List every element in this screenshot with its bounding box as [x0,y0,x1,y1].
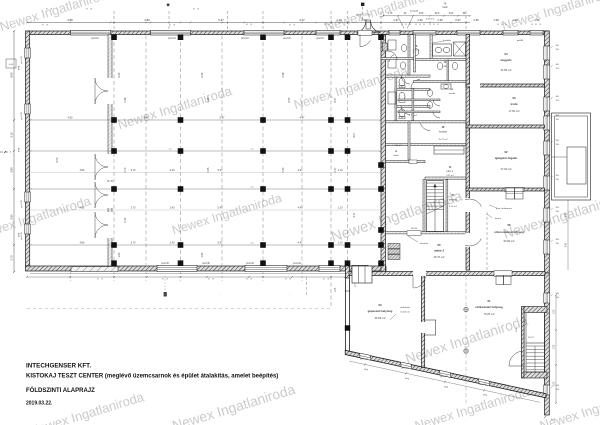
svg-text:kandallo: kandallo [443,40,452,42]
svg-text:05: 05 [437,243,441,247]
svg-text:1.35: 1.35 [473,18,479,22]
targyalo bottom wall [466,84,545,87]
lower-right section west wall [346,266,350,353]
svg-text:raktar 2: raktar 2 [434,249,445,253]
svg-text:1.10: 1.10 [338,207,343,210]
sanitary partition horizontal 4 [386,121,467,123]
svg-text:3.48: 3.48 [282,72,285,77]
svg-text:21.86 m2: 21.86 m2 [501,68,512,72]
svg-text:3.70: 3.70 [131,242,136,245]
sanitary partition horizontal 3 [395,106,430,108]
svg-text:pm1.00: pm1.00 [21,112,23,120]
svg-text:5.47: 5.47 [218,18,224,22]
columns under top wall [111,34,117,40]
igazgatoi door radiator symbol [506,188,515,199]
svg-text:igazgatoi-fogado: igazgatoi-fogado [495,156,518,160]
hall columns grid [111,117,117,123]
terrace outside right wall [552,113,591,200]
svg-text:4.47: 4.47 [298,242,303,245]
vestibule fixtures [413,48,418,55]
svg-text:INTECHGENSER KFT.: INTECHGENSER KFT. [26,363,91,370]
svg-text:1.05: 1.05 [335,287,337,292]
svg-text:kandallo: kandallo [410,11,419,13]
svg-text:6.27: 6.27 [334,97,337,102]
wc room door arcs [401,75,410,84]
hall east boundary wall [381,35,386,274]
wc area door [420,123,430,130]
top exterior wall with windows [27,31,549,35]
shower cabin [454,42,466,56]
svg-text:4.47: 4.47 [298,169,303,172]
svg-text:02: 02 [504,150,508,154]
svg-text:8.40: 8.40 [201,72,204,77]
left dimension chain [13,31,15,272]
svg-text:2.40: 2.40 [170,207,175,210]
svg-text:2.45: 2.45 [207,167,210,172]
upper small room horizontal wall [381,58,414,60]
extra toilet lower [427,90,432,97]
svg-text:3.80: 3.80 [10,167,14,173]
svg-text:9.10: 9.10 [124,217,127,222]
svg-text:2.48: 2.48 [207,97,210,102]
left axis marker [0,151,11,153]
svg-text:4.80: 4.80 [80,242,85,245]
igazgatoi bottom wall [466,188,545,191]
svg-text:pm2.10: pm2.10 [241,38,249,40]
diagonal south wall [345,350,546,398]
hall bottom exterior wall with windows [26,266,387,271]
svg-text:30.9: 30.9 [435,13,440,15]
svg-text:pm085: pm085 [517,40,524,42]
svg-text:1.30: 1.30 [417,18,423,22]
svg-text:pm1.00: pm1.00 [21,56,23,64]
svg-text:1.20: 1.20 [512,18,518,22]
top dimension chain [27,22,470,24]
svg-text:8.90: 8.90 [10,72,14,78]
svg-text:FÖLDSZINTI ALAPRAJZ: FÖLDSZINTI ALAPRAJZ [26,387,95,394]
svg-text:27.94 m2: 27.94 m2 [501,167,512,171]
svg-text:3.70: 3.70 [131,207,136,210]
bottom secondary dashed line [27,308,332,310]
svg-text:03: 03 [512,96,516,100]
stairs lower right west wall [522,307,525,379]
svg-text:iroda: iroda [511,102,518,106]
entrance door arc [360,41,370,47]
svg-text:pm1.80: pm1.80 [360,358,368,360]
svg-text:4.80: 4.80 [68,117,73,120]
wall under basins [414,59,467,61]
axis extension dashed lines top [113,11,115,31]
sanitary stall wall [395,77,397,121]
svg-text:90/210: 90/210 [411,228,418,230]
sanitary shaft dark [383,43,388,51]
hall horizontal chain lines [31,119,381,121]
axis dots lower [464,307,468,311]
right exterior wall lower part [545,273,550,415]
svg-text:2.17: 2.17 [334,167,337,172]
gepeszeti door recess [425,320,436,335]
svg-text:szellozoko: szellozoko [400,307,411,309]
svg-text:5.47: 5.47 [218,242,223,245]
svg-text:pm2.30: pm2.30 [161,263,169,265]
svg-text:4.47: 4.47 [299,18,305,22]
svg-text:pm1.80: pm1.80 [440,376,448,378]
lower stall separators [398,99,440,101]
svg-text:1.80: 1.80 [201,252,204,257]
corridor wall [386,161,426,163]
wcb room toilets [437,62,442,69]
lower-right section top wall [349,272,545,276]
svg-text:gazt. dekoracios: gazt. dekoracios [496,207,513,210]
raktar1 room east wall [423,180,425,232]
svg-text:KISTOKAJ TESZT CENTER (meglévő: KISTOKAJ TESZT CENTER (meglévő üzemcsarn… [26,374,278,380]
svg-text:1.80: 1.80 [118,252,121,257]
washbasin counter [433,44,452,56]
svg-text:kozl. 1: kozl. 1 [447,171,454,173]
svg-text:oltozo-kamra helyiseg: oltozo-kamra helyiseg [494,230,524,234]
upper small room wall [414,35,416,73]
svg-text:6.07: 6.07 [353,132,356,137]
dimension line parallel to diagonal [349,361,540,402]
svg-text:1.50: 1.50 [554,309,556,314]
door arc upper left room [388,51,397,59]
leader lines to wall [398,17,404,29]
sanitary partition horizontal 2 [395,89,430,91]
office east block divider wall [466,35,470,271]
corridor basin [441,84,451,89]
svg-text:kontur: kontur [495,217,501,220]
svg-text:03: 03 [378,303,382,307]
svg-text:46.99 m2: 46.99 m2 [375,316,386,320]
svg-text:9.00: 9.00 [56,157,59,162]
svg-text:2.98: 2.98 [566,212,568,217]
svg-text:1.60: 1.60 [554,381,556,386]
level label box left [6,59,16,68]
svg-text:pm2.30: pm2.30 [293,263,301,265]
svg-text:3.70: 3.70 [124,167,127,172]
bottom dimension chain [27,276,345,278]
svg-text:pm1.00: pm1.00 [21,200,23,208]
svg-text:5.47: 5.47 [220,117,225,120]
svg-text:16x17: 16x17 [528,337,535,339]
svg-text:4.50: 4.50 [419,13,424,15]
svg-text:2.03: 2.03 [449,13,454,15]
svg-text:konyha: konyha [439,132,447,134]
right lower outside dim chain [555,295,557,403]
svg-text:tomb: tomb [442,6,448,9]
stairs lower right top bar [524,307,547,313]
svg-text:0.97: 0.97 [455,18,461,22]
svg-text:pm2.10: pm2.10 [283,38,291,40]
svg-text:4.80: 4.80 [67,18,73,22]
svg-text:3.31 m2: 3.31 m2 [446,175,454,177]
stairs door arc [509,351,522,366]
urinal room divider [412,89,414,121]
svg-text:mosdo: mosdo [449,93,456,95]
door in lower section top wall [413,271,426,276]
svg-text:1.70: 1.70 [388,13,393,15]
small vestibule walls top [408,35,410,76]
door gadget in top wall lower section [496,276,504,285]
axis dashed line lower section [465,276,467,406]
storage shelves [388,244,400,249]
iroda bottom wall [466,125,545,128]
columns on bottom wall [111,260,117,266]
top secondary dimension line [383,15,470,17]
gepeszeti east wall [422,276,425,368]
chimney block on wall [352,266,372,283]
svg-text:70.25 m2: 70.25 m2 [484,312,495,316]
right exterior wall with windows [545,31,550,273]
svg-text:5.47: 5.47 [218,207,223,210]
svg-text:1.97: 1.97 [393,18,399,22]
windows in diagonal wall [360,353,371,360]
toilet bowls [399,78,405,86]
title block text [26,363,278,407]
svg-text:4.47: 4.47 [298,207,303,210]
svg-text:15.27 m2: 15.27 m2 [438,139,448,141]
svg-text:4.17: 4.17 [353,212,356,217]
svg-text:4.47: 4.47 [300,117,305,120]
stairs lower right treads [526,343,545,372]
svg-text:szitk-kazani helyiseg: szitk-kazani helyiseg [475,305,503,309]
svg-text:kemeny: kemeny [449,200,458,202]
svg-text:2019.03.22.: 2019.03.22. [26,401,53,407]
svg-text:2.40: 2.40 [170,169,175,172]
svg-text:1.30: 1.30 [493,18,499,22]
svg-text:pm2.30: pm2.30 [202,263,210,265]
svg-text:gepeszeti helyiseg: gepeszeti helyiseg [368,309,393,313]
svg-text:2.70: 2.70 [10,255,14,261]
svg-text:2.40: 2.40 [170,242,175,245]
corridor wall 2 [425,177,468,179]
svg-text:talalo: talalo [393,154,399,157]
svg-text:4.80: 4.80 [80,169,85,172]
svg-text:targyalo: targyalo [501,58,512,62]
svg-text:06: 06 [507,223,511,227]
svg-text:1.10: 1.10 [338,169,343,172]
svg-text:1.55: 1.55 [534,18,540,22]
wcb bottom wall [414,81,467,83]
svg-text:2.48: 2.48 [124,97,127,102]
svg-text:2.47: 2.47 [566,242,568,247]
svg-text:2.40: 2.40 [282,167,285,172]
svg-text:8.40: 8.40 [118,72,121,77]
svg-text:53.99 m2: 53.99 m2 [504,239,515,243]
small wc lower left annex [388,92,396,104]
svg-text:pm1.80: pm1.80 [479,384,487,386]
svg-text:pm2.10: pm2.10 [168,38,176,40]
kazan2 west wall [446,180,448,232]
svg-text:1.35: 1.35 [437,18,443,22]
inner longitudinal wall of hall [108,35,112,267]
columns on east hall wall [378,162,384,168]
svg-text:elotet +2.57 m: elotet +2.57 m [356,14,371,17]
kitchen counter [434,146,464,154]
svg-text:25.76 m2: 25.76 m2 [434,255,445,259]
hall vertical axis gridlines [113,36,115,266]
right lower dim text [544,416,546,418]
office divider door arcs [465,199,481,206]
axis continuations below bottom wall [70,272,72,281]
svg-text:04: 04 [504,52,508,56]
svg-text:pm2.10: pm2.10 [316,38,324,40]
right dimension chain [567,200,569,270]
svg-text:01: 01 [487,299,491,303]
svg-text:3.10: 3.10 [10,132,14,138]
wcb stall divider [447,60,449,81]
bottom axis marker [164,276,166,292]
stairs landing rails [525,313,527,343]
left exterior wall with windows [26,31,30,266]
svg-text:5.47: 5.47 [218,169,223,172]
svg-text:pm1.80: pm1.80 [401,367,409,369]
axis mark small x168 [167,4,170,7]
svg-text:8.55: 8.55 [288,97,291,102]
raktar1 bottom wall [386,232,467,234]
door arcs lower stalls [433,100,440,106]
axis marker top [361,3,364,6]
svg-text:4.80: 4.80 [144,117,149,120]
svg-text:1.10: 1.10 [336,18,342,22]
svg-text:pm2.10: pm2.10 [91,38,99,40]
svg-text:pm1.00: pm1.00 [21,232,23,240]
svg-text:1.10: 1.10 [338,242,343,245]
kazanka label with leader [408,236,418,242]
staircase upper [427,181,444,232]
svg-text:5.60: 5.60 [10,214,14,220]
svg-text:5x115 cm: 5x115 cm [400,312,409,314]
svg-text:4.80: 4.80 [144,18,150,22]
svg-text:3.70: 3.70 [131,169,136,172]
raktar1 door opening [407,231,421,235]
svg-text:4.03 m2: 4.03 m2 [426,19,435,21]
stairs lower right bottom bar [524,372,547,378]
hall secondary horizontal lines [31,172,381,174]
wc bowl upper left [401,44,406,51]
sanitary block west partition [430,35,432,61]
kontur dashed line [486,212,488,270]
svg-text:1.50: 1.50 [554,344,556,349]
kitchen walls [386,144,467,146]
svg-text:pm2.30: pm2.30 [246,263,254,265]
entrance canopy with curved sides [357,20,381,33]
svg-text:17.60 m2: 17.60 m2 [509,109,520,113]
sanitary partition horizontal 1 [386,75,431,77]
svg-text:kazanka: kazanka [420,243,429,245]
svg-text:2.06 m2: 2.06 m2 [394,145,402,147]
svg-text:4.80: 4.80 [80,207,85,210]
svg-text:5.13 m2: 5.13 m2 [449,206,458,208]
raktar1 top door break [409,160,417,164]
entrance door break in wall [358,30,372,35]
doors on inner wall [95,78,108,91]
